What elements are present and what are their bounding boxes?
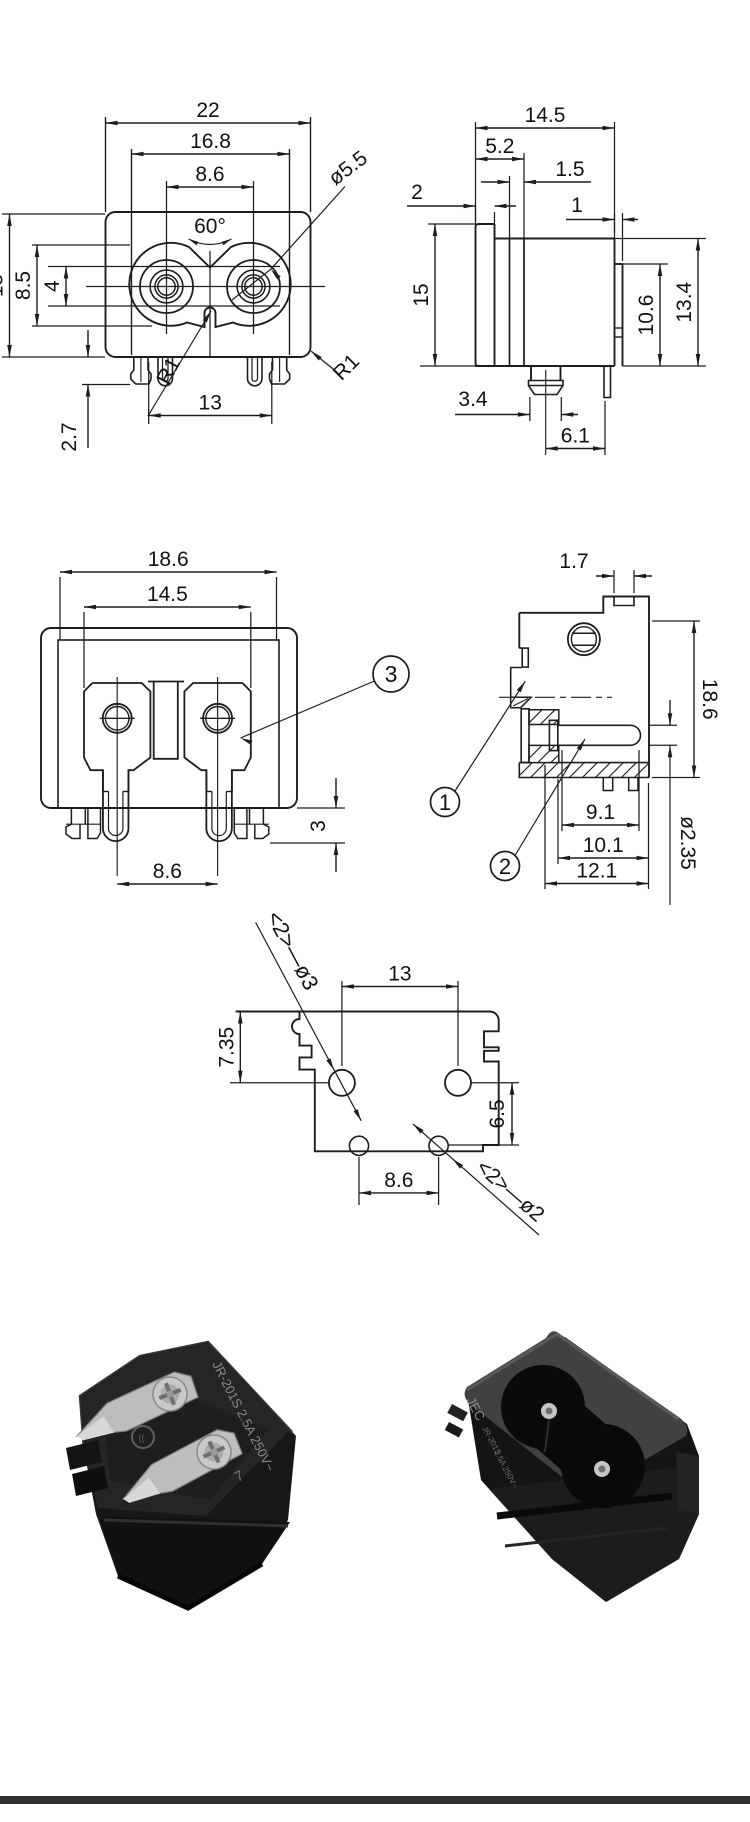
- svg-text:ø2.35: ø2.35: [676, 816, 699, 870]
- svg-text:18.6: 18.6: [698, 679, 721, 720]
- svg-text:10.1: 10.1: [583, 834, 624, 857]
- svg-text:8.5: 8.5: [12, 271, 35, 300]
- svg-text:((·: ((·: [139, 1433, 148, 1443]
- svg-text:22: 22: [196, 99, 219, 122]
- svg-text:8.6: 8.6: [384, 1169, 413, 1192]
- svg-text:3: 3: [385, 661, 398, 687]
- svg-text:2.7: 2.7: [58, 422, 81, 451]
- svg-text:1: 1: [439, 790, 451, 815]
- svg-text:2: 2: [411, 181, 423, 204]
- svg-text:14.5: 14.5: [525, 104, 566, 127]
- svg-text:13.4: 13.4: [673, 281, 696, 322]
- svg-text:10.6: 10.6: [635, 295, 658, 336]
- svg-text:15: 15: [410, 283, 433, 306]
- svg-text:1: 1: [571, 194, 583, 217]
- svg-text:15: 15: [0, 274, 8, 297]
- svg-text:7.35: 7.35: [215, 1027, 238, 1068]
- svg-text:16.8: 16.8: [190, 130, 231, 153]
- svg-text:14.5: 14.5: [147, 583, 188, 606]
- svg-text:6.1: 6.1: [561, 425, 590, 448]
- svg-text:4: 4: [41, 280, 64, 292]
- svg-text:6.5: 6.5: [486, 1099, 509, 1128]
- svg-text:12.1: 12.1: [576, 860, 617, 883]
- svg-text:1.5: 1.5: [555, 158, 584, 181]
- svg-text:60°: 60°: [194, 215, 226, 238]
- svg-text:1.7: 1.7: [559, 550, 588, 573]
- svg-text:3: 3: [307, 820, 330, 832]
- svg-text:13: 13: [199, 392, 222, 415]
- svg-text:5.2: 5.2: [485, 135, 514, 158]
- svg-text:3.4: 3.4: [458, 388, 488, 411]
- svg-text:18.6: 18.6: [148, 548, 189, 571]
- svg-text:9.1: 9.1: [586, 801, 615, 824]
- svg-text:2: 2: [499, 854, 511, 879]
- svg-text:8.6: 8.6: [153, 860, 182, 883]
- svg-text:13: 13: [388, 963, 411, 986]
- svg-text:8.6: 8.6: [195, 163, 224, 186]
